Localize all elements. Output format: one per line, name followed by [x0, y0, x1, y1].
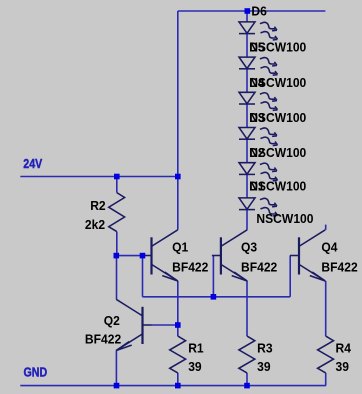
- svg-text:BF422: BF422: [172, 260, 208, 274]
- wire Q2 collector riser: [116, 256, 118, 300]
- resistor R1 (39): [170, 336, 186, 373]
- wire Q3 base riser: [212, 256, 214, 297]
- transistor Q4 (BF422 NPN): [290, 230, 325, 281]
- wire Q2 emitter to GND: [115, 351, 117, 386]
- wire R2 bottom stub: [116, 232, 118, 256]
- wire D1 cathode to Q3 collector: [246, 210, 248, 230]
- svg-text:R4: R4: [336, 341, 351, 355]
- svg-text:GND: GND: [24, 365, 48, 380]
- junction 24V rail / R2: [114, 174, 120, 180]
- LED D3 (NSCW100): [239, 128, 278, 146]
- LED D2 (NSCW100): [239, 163, 278, 181]
- wire Q1 base: [116, 255, 142, 257]
- junction LED chain / top wire: [245, 8, 251, 14]
- wire base bus: [143, 296, 291, 298]
- wire LED chain segment 3: [246, 104, 248, 128]
- wire LED chain segment 1: [246, 34, 248, 58]
- wire Q3 emitter to R3: [246, 281, 248, 336]
- resistor R4 (39): [318, 336, 334, 373]
- svg-text:BF422: BF422: [241, 260, 277, 274]
- svg-text:D6: D6: [251, 4, 266, 18]
- wire 24V rail: [20, 176, 178, 178]
- LED D1 (NSCW100): [239, 198, 278, 216]
- svg-text:R1: R1: [188, 341, 203, 355]
- wire LED chain segment 4: [246, 139, 248, 163]
- junction R2 / Q1 base / Q2 collector: [114, 253, 120, 259]
- junction 24V rail / riser: [175, 174, 181, 180]
- wire R2 top stub: [116, 177, 118, 193]
- svg-text:Q4: Q4: [321, 240, 337, 254]
- svg-text:39: 39: [257, 359, 270, 373]
- transistor Q2 (BF422 NPN): [116, 299, 151, 350]
- svg-text:24V: 24V: [23, 156, 42, 171]
- transistor Q1 (BF422 NPN): [143, 230, 178, 281]
- wire LED chain segment 2: [246, 69, 248, 93]
- svg-text:BF422: BF422: [85, 332, 121, 346]
- svg-text:D5: D5: [249, 40, 264, 54]
- wire R3 bottom stub: [246, 373, 248, 386]
- LED D5 (NSCW100): [239, 57, 278, 75]
- wire R4 bottom stub: [325, 373, 327, 386]
- svg-text:39: 39: [336, 359, 349, 373]
- transistor Q3 (BF422 NPN): [212, 230, 247, 281]
- wire 24V riser / Q1 collector: [177, 11, 179, 230]
- wire R1 bottom stub: [177, 373, 179, 386]
- LED D4 (NSCW100): [239, 92, 278, 110]
- svg-text:R2: R2: [90, 199, 105, 213]
- wire Q2 base: [152, 324, 178, 326]
- wire LED chain segment 5: [246, 174, 248, 198]
- svg-text:D2: D2: [249, 146, 264, 160]
- svg-text:2k2: 2k2: [85, 218, 105, 232]
- junction Q1 base pin / bus riser: [140, 253, 146, 259]
- wire Q4 collector stub: [325, 225, 327, 230]
- LED D6 (NSCW100): [239, 22, 278, 40]
- resistor R3 (39): [239, 336, 255, 373]
- wire top anode feed: [178, 10, 326, 12]
- junction Q2 base / R1 top: [175, 322, 181, 328]
- wire Q4 emitter to R4: [325, 281, 327, 336]
- wire Q1 emitter to R1: [177, 281, 179, 336]
- junction GND / Q2 emitter: [114, 383, 120, 389]
- svg-text:D4: D4: [249, 76, 264, 90]
- svg-text:D1: D1: [249, 179, 264, 193]
- svg-text:Q1: Q1: [172, 240, 188, 254]
- svg-text:D3: D3: [249, 111, 264, 125]
- junction GND / R3: [244, 383, 250, 389]
- svg-text:Q3: Q3: [241, 240, 257, 254]
- junction bus / Q3 base riser: [211, 294, 217, 300]
- svg-text:BF422: BF422: [321, 260, 357, 274]
- wire GND rail: [20, 385, 326, 387]
- svg-text:NSCW100: NSCW100: [256, 211, 313, 225]
- svg-text:R3: R3: [257, 341, 272, 355]
- wire Q4 base riser: [289, 255, 291, 296]
- svg-text:Q2: Q2: [104, 314, 120, 328]
- resistor R2 (2k2): [109, 193, 125, 232]
- wire base bus riser: [142, 256, 144, 297]
- junction GND / R1: [175, 383, 181, 389]
- wire LED chain top: [246, 11, 248, 22]
- svg-text:39: 39: [188, 359, 201, 373]
